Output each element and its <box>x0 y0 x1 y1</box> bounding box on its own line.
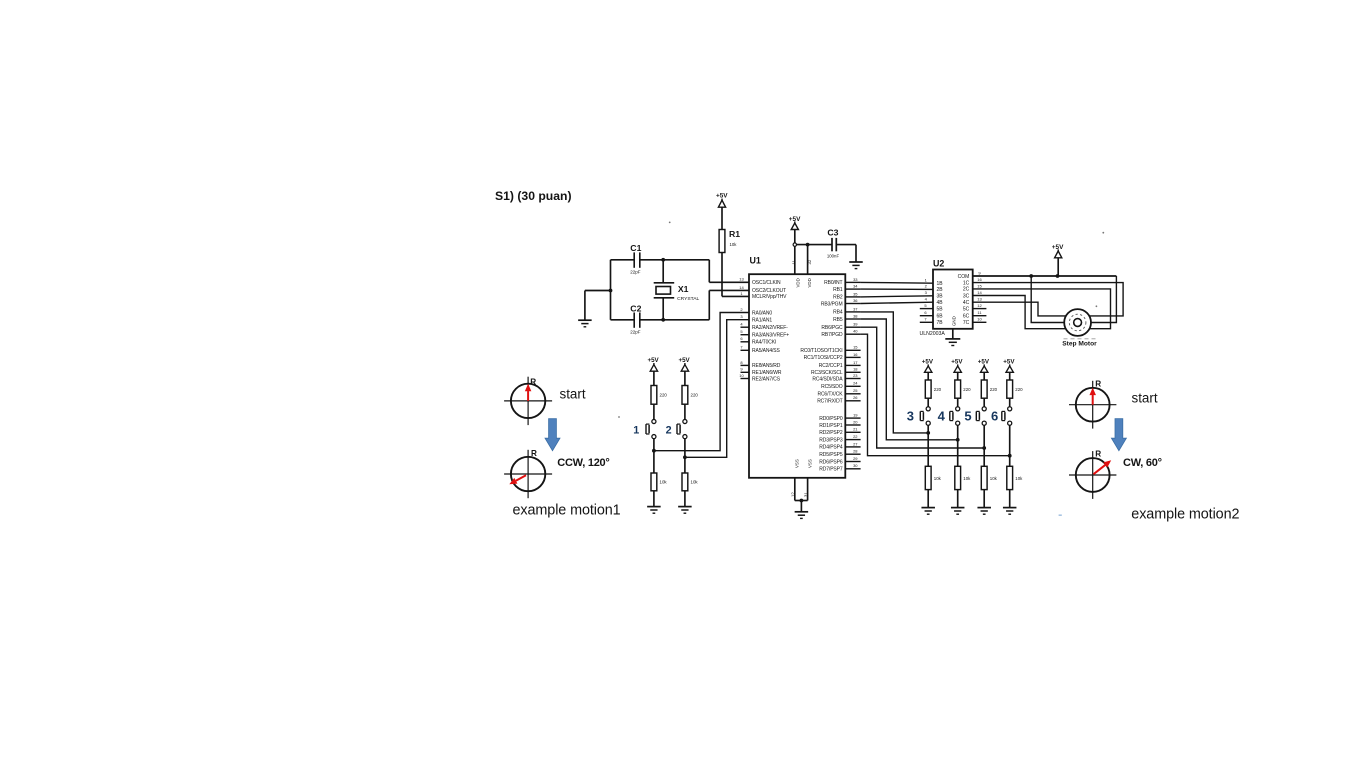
svg-text:R: R <box>1095 449 1101 458</box>
svg-text:30: 30 <box>853 463 858 468</box>
svg-text:R: R <box>531 449 537 458</box>
svg-text:13: 13 <box>739 277 744 282</box>
svg-text:RB0/INT: RB0/INT <box>824 280 842 286</box>
svg-text:X1: X1 <box>678 284 689 294</box>
svg-text:MCLR/Vpp/THV: MCLR/Vpp/THV <box>752 294 787 300</box>
svg-text:R1: R1 <box>729 229 740 239</box>
svg-text:+5V: +5V <box>951 358 963 365</box>
svg-text:10k: 10k <box>660 480 668 485</box>
svg-text:RC5/SDO: RC5/SDO <box>821 384 843 390</box>
svg-text:10k: 10k <box>963 476 971 481</box>
svg-text:3: 3 <box>907 408 914 423</box>
svg-text:220: 220 <box>963 387 971 392</box>
svg-text:example motion1: example motion1 <box>513 503 621 519</box>
svg-text:22pF: 22pF <box>630 330 641 335</box>
svg-text:10: 10 <box>977 317 982 322</box>
svg-text:15: 15 <box>977 283 982 288</box>
svg-text:RA4/T0CKI: RA4/T0CKI <box>752 340 776 346</box>
svg-text:32: 32 <box>807 259 812 264</box>
svg-text:VSS: VSS <box>795 459 800 468</box>
svg-text:R: R <box>1095 380 1101 389</box>
svg-text:38: 38 <box>853 313 858 318</box>
svg-text:RB4: RB4 <box>833 310 843 316</box>
svg-text:example motion2: example motion2 <box>1131 507 1239 523</box>
svg-text:start: start <box>560 387 586 402</box>
svg-text:CRYSTAL: CRYSTAL <box>677 296 699 302</box>
svg-text:10k: 10k <box>934 476 942 481</box>
svg-text:RA2/AN2/VREF-: RA2/AN2/VREF- <box>752 325 788 331</box>
svg-text:4B: 4B <box>937 300 944 306</box>
svg-text:220: 220 <box>691 393 699 398</box>
svg-text:+5V: +5V <box>679 357 691 364</box>
svg-text:CW, 60°: CW, 60° <box>1123 457 1162 469</box>
svg-text:RD7/PSP7: RD7/PSP7 <box>819 467 843 473</box>
svg-text:RA0/AN0: RA0/AN0 <box>752 310 772 316</box>
svg-text:COM: COM <box>958 274 970 280</box>
svg-text:27: 27 <box>853 441 858 446</box>
svg-text:RB5: RB5 <box>833 317 843 323</box>
svg-text:RC4/SDI/SDA: RC4/SDI/SDA <box>812 376 843 382</box>
svg-text:220: 220 <box>934 387 942 392</box>
svg-text:33: 33 <box>853 277 858 282</box>
svg-text:14: 14 <box>977 290 982 295</box>
svg-text:RB1: RB1 <box>833 287 843 293</box>
svg-text:12: 12 <box>977 303 982 308</box>
svg-text:40: 40 <box>853 329 858 334</box>
svg-text:2C: 2C <box>963 287 970 293</box>
svg-text:39: 39 <box>853 322 858 327</box>
svg-text:C3: C3 <box>827 227 838 237</box>
svg-text:+5V: +5V <box>922 358 934 365</box>
svg-text:+5V: +5V <box>978 358 990 365</box>
svg-text:1: 1 <box>633 425 639 437</box>
svg-text:100nF: 100nF <box>827 254 840 259</box>
svg-text:U1: U1 <box>750 256 761 266</box>
svg-text:S1) (30 puan): S1) (30 puan) <box>495 189 572 203</box>
svg-text:RD6/PSP6: RD6/PSP6 <box>819 459 843 465</box>
svg-text:RB6/PGC: RB6/PGC <box>821 325 843 331</box>
svg-text:CCW, 120°: CCW, 120° <box>557 457 609 469</box>
svg-text:29: 29 <box>853 456 858 461</box>
svg-text:RD3/PSP3: RD3/PSP3 <box>819 437 843 443</box>
svg-text:1B: 1B <box>937 281 944 287</box>
svg-text:37: 37 <box>853 306 858 311</box>
svg-text:+5V: +5V <box>716 192 728 199</box>
svg-text:+5V: +5V <box>648 357 660 364</box>
svg-text:R: R <box>530 378 536 387</box>
svg-text:VDD: VDD <box>807 278 812 287</box>
svg-text:3C: 3C <box>963 293 970 299</box>
svg-text:start: start <box>1132 391 1158 406</box>
svg-text:5: 5 <box>964 408 971 423</box>
svg-text:17: 17 <box>853 360 858 365</box>
svg-text:31: 31 <box>803 492 808 497</box>
svg-text:13: 13 <box>977 297 982 302</box>
svg-text:C2: C2 <box>630 304 641 314</box>
svg-text:RA5/AN4/SS: RA5/AN4/SS <box>752 348 780 354</box>
svg-text:RC1/T1OSI/CCP2: RC1/T1OSI/CCP2 <box>804 355 843 361</box>
svg-text:RB2: RB2 <box>833 295 843 301</box>
svg-text:28: 28 <box>853 449 858 454</box>
svg-text:24: 24 <box>853 381 858 386</box>
svg-text:16: 16 <box>853 352 858 357</box>
svg-text:RA3/AN3/VREF+: RA3/AN3/VREF+ <box>752 333 789 339</box>
svg-text:RD4/PSP4: RD4/PSP4 <box>819 445 843 451</box>
svg-text:+5V: +5V <box>1003 358 1015 365</box>
svg-text:2B: 2B <box>937 287 944 293</box>
svg-text:RD0/PSP0: RD0/PSP0 <box>819 416 843 422</box>
svg-text:11: 11 <box>791 259 796 264</box>
svg-text:RC0/T1OSO/T1CKI: RC0/T1OSO/T1CKI <box>800 348 842 354</box>
svg-text:6C: 6C <box>963 314 970 320</box>
svg-text:34: 34 <box>853 284 858 289</box>
svg-text:22: 22 <box>853 434 858 439</box>
svg-text:19: 19 <box>853 413 858 418</box>
svg-text:12: 12 <box>791 492 796 497</box>
svg-text:Step Motor: Step Motor <box>1062 341 1097 348</box>
svg-text:7B: 7B <box>937 320 944 326</box>
svg-text:C1: C1 <box>630 243 641 253</box>
svg-text:10: 10 <box>739 373 744 378</box>
svg-text:15: 15 <box>853 345 858 350</box>
svg-text:18: 18 <box>853 367 858 372</box>
svg-text:RC3/SCK/SCL: RC3/SCK/SCL <box>811 370 843 376</box>
svg-text:6B: 6B <box>937 314 944 320</box>
svg-text:16: 16 <box>977 277 982 282</box>
svg-text:RD2/PSP2: RD2/PSP2 <box>819 430 843 436</box>
svg-text:4C: 4C <box>963 300 970 306</box>
svg-text:RC6/TX/CK: RC6/TX/CK <box>817 392 843 398</box>
svg-text:2: 2 <box>666 425 672 437</box>
svg-text:3B: 3B <box>937 294 944 300</box>
svg-text:VDD: VDD <box>795 278 800 287</box>
svg-text:21: 21 <box>853 427 858 432</box>
svg-text:5B: 5B <box>937 306 944 312</box>
svg-text:RE0/AN5/RD: RE0/AN5/RD <box>752 363 781 369</box>
svg-text:GND: GND <box>951 316 956 326</box>
svg-text:RB3/PGM: RB3/PGM <box>821 301 843 307</box>
svg-text:25: 25 <box>853 388 858 393</box>
svg-text:RD1/PSP1: RD1/PSP1 <box>819 423 843 429</box>
svg-text:10k: 10k <box>691 480 699 485</box>
svg-text:36: 36 <box>853 298 858 303</box>
svg-text:20: 20 <box>853 419 858 424</box>
svg-text:35: 35 <box>853 291 858 296</box>
svg-text:14: 14 <box>739 285 744 290</box>
svg-text:RE1/AN6/WR: RE1/AN6/WR <box>752 370 782 376</box>
svg-text:RE2/AN7/CS: RE2/AN7/CS <box>752 376 781 382</box>
svg-text:10k: 10k <box>1015 476 1023 481</box>
svg-text:23: 23 <box>853 373 858 378</box>
svg-text:6: 6 <box>991 408 998 423</box>
svg-text:OSC1/CLKIN: OSC1/CLKIN <box>752 280 781 286</box>
svg-text:7C: 7C <box>963 320 970 326</box>
svg-text:1C: 1C <box>963 280 970 286</box>
svg-text:220: 220 <box>990 387 998 392</box>
svg-text:4: 4 <box>938 408 946 423</box>
svg-text:VSS: VSS <box>808 459 813 468</box>
svg-text:220: 220 <box>1015 387 1023 392</box>
svg-text:U2: U2 <box>933 258 944 268</box>
svg-text:RC2/CCP1: RC2/CCP1 <box>819 363 843 369</box>
svg-text:RA1/AN1: RA1/AN1 <box>752 318 772 324</box>
svg-text:10k: 10k <box>990 476 998 481</box>
svg-text:5C: 5C <box>963 306 970 312</box>
svg-text:RB7/PGD: RB7/PGD <box>821 332 843 338</box>
svg-text:220: 220 <box>660 393 668 398</box>
svg-text:ULN2003A: ULN2003A <box>920 331 946 337</box>
svg-text:RC7/RX/DT: RC7/RX/DT <box>817 399 842 405</box>
svg-text:22pF: 22pF <box>630 270 641 275</box>
svg-text:10k: 10k <box>730 242 738 247</box>
svg-text:RD5/PSP5: RD5/PSP5 <box>819 452 843 458</box>
svg-text:26: 26 <box>853 395 858 400</box>
